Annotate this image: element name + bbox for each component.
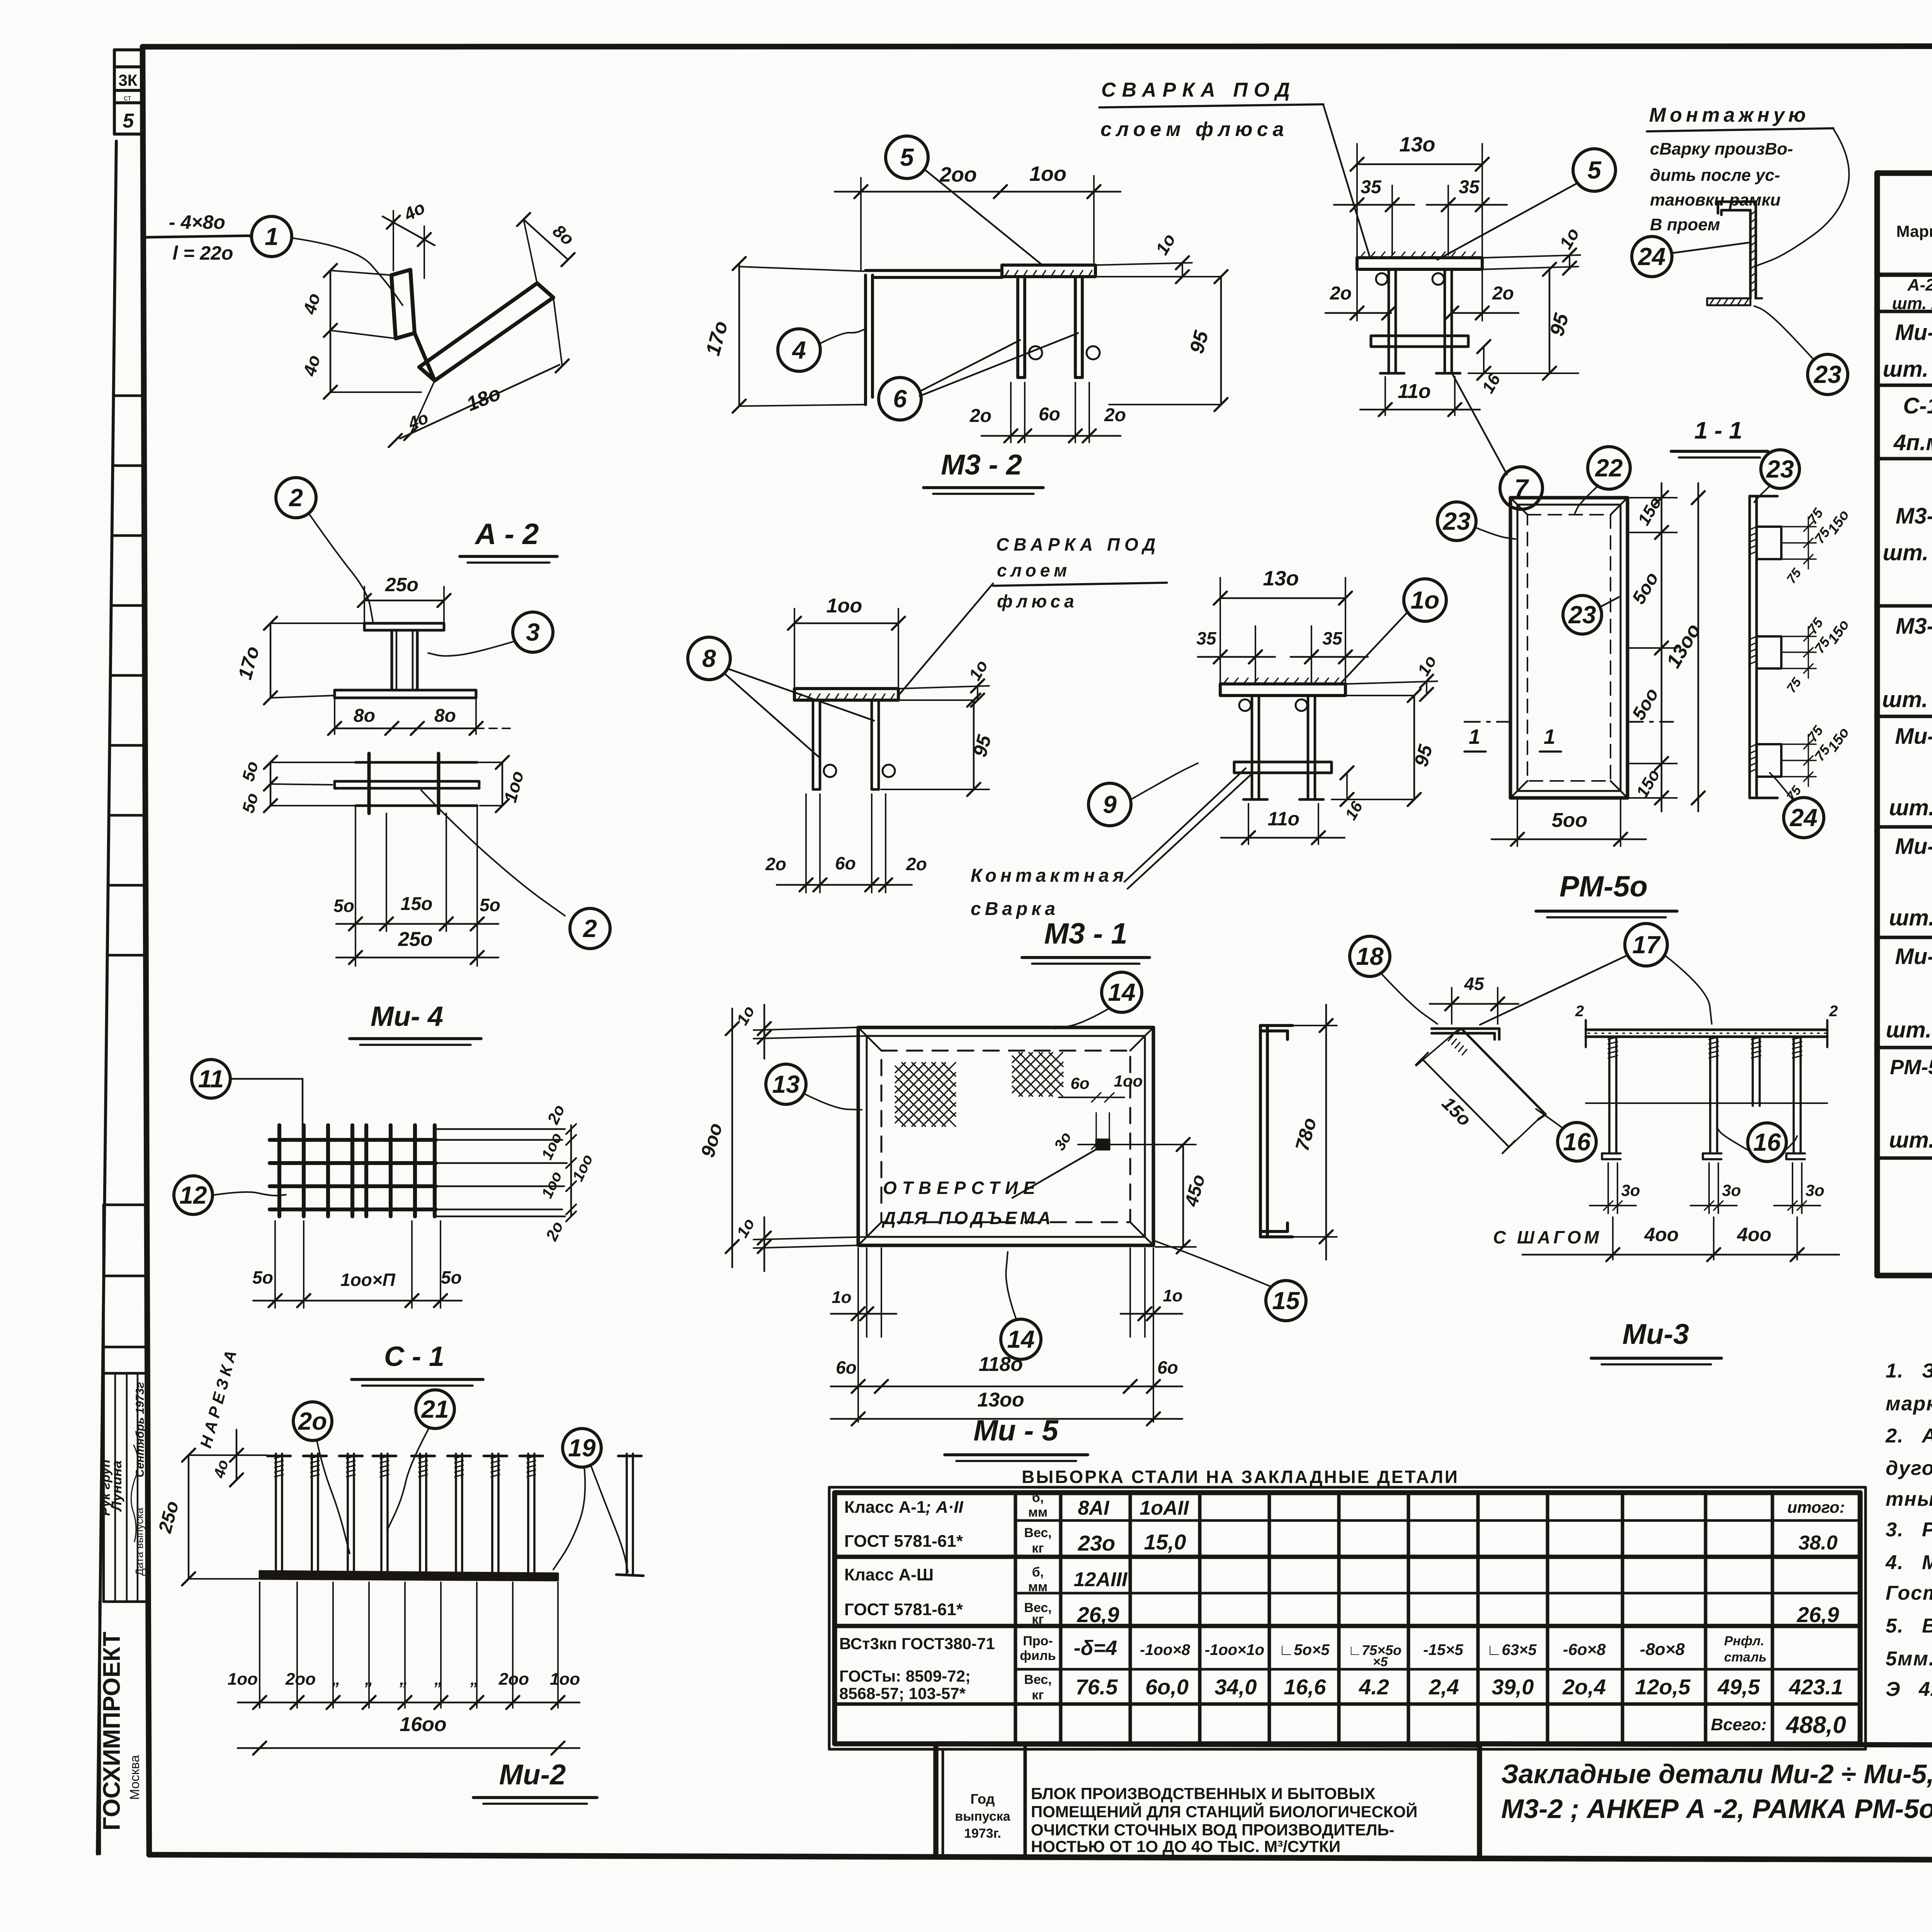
- svg-text:1оо: 1оо: [1029, 162, 1066, 185]
- svg-text:23: 23: [1442, 507, 1470, 535]
- svg-text:35: 35: [1196, 628, 1217, 648]
- mesh S-1: [270, 1125, 567, 1216]
- svg-text:кг: кг: [1032, 1688, 1044, 1702]
- Mi-3 corner angle piece: [1432, 1029, 1546, 1119]
- title block: sheet name: [1501, 1759, 1932, 1824]
- svg-text:1о: 1о: [1414, 652, 1440, 679]
- callout 24 (section bottom): [1784, 798, 1824, 838]
- svg-text:мм: мм: [1028, 1580, 1048, 1594]
- svg-text:1о: 1о: [1151, 230, 1179, 258]
- callout 23 (frame inner): [1563, 595, 1602, 634]
- note otverstie dlya podyoma: [881, 1148, 1099, 1228]
- svg-text:75: 75: [1804, 615, 1826, 637]
- callout 15: [1266, 1281, 1306, 1321]
- dim 80 (plate width): [517, 213, 578, 283]
- svg-text:Ми-2: Ми-2: [499, 1759, 566, 1791]
- mesh bottom dims 50/100xP/50: [252, 1221, 462, 1308]
- Mi-3 dim 150 diagonal: [1416, 1033, 1538, 1153]
- title M3-2: [923, 449, 1043, 494]
- svg-text:М3-1: М3-1: [1896, 614, 1932, 639]
- M3-2 section dims 20/20: [1325, 269, 1519, 321]
- svg-text:Москва: Москва: [128, 1755, 142, 1800]
- svg-text:1оо: 1оо: [500, 769, 527, 804]
- svg-text:1оо: 1оо: [827, 595, 862, 617]
- svg-text:б,: б,: [1032, 1565, 1044, 1580]
- svg-text:дить после ус-: дить после ус-: [1650, 166, 1780, 185]
- Mi-3 dims 30: [1590, 1163, 1825, 1213]
- svg-text:1: 1: [1469, 725, 1480, 748]
- svg-text:75: 75: [1804, 505, 1826, 527]
- svg-text:тным способом на аВтома: тным способом на аВтоматах или полуаВтом…: [1886, 1488, 1932, 1510]
- svg-text:3К: 3К: [119, 71, 138, 89]
- svg-text:РМ-5о: РМ-5о: [1890, 1056, 1932, 1079]
- svg-text:∟5о×5: ∟5о×5: [1279, 1641, 1330, 1658]
- svg-text:8568-57; 103-57*: 8568-57; 103-57*: [839, 1684, 966, 1702]
- plan dims 50/50/100: [239, 756, 528, 815]
- svg-text:8о: 8о: [549, 221, 578, 249]
- svg-text:Лунина: Лунина: [109, 1461, 124, 1512]
- svg-text:×5: ×5: [1373, 1655, 1388, 1669]
- M3-2 dim 95: [1097, 270, 1228, 411]
- Mi-2 studs: [267, 1454, 543, 1572]
- Mi-5 dim 450: [1110, 1138, 1209, 1253]
- callout 6: [879, 378, 921, 420]
- M3-2 section dims 35/35: [1334, 177, 1507, 255]
- svg-text:6: 6: [893, 385, 907, 413]
- svg-text:26,9: 26,9: [1077, 1602, 1119, 1627]
- svg-text:-6о×8: -6о×8: [1563, 1640, 1606, 1658]
- svg-text:„: „: [332, 1670, 340, 1689]
- svg-text:итого:: итого:: [1787, 1498, 1845, 1516]
- callout 4: [778, 329, 820, 371]
- svg-text:сВарка: сВарка: [971, 899, 1059, 919]
- svg-text:шт. 1: шт. 1: [1889, 905, 1932, 930]
- svg-text:шт. 2о: шт. 2о: [1882, 687, 1932, 712]
- svg-text:45: 45: [1464, 974, 1485, 994]
- svg-text:15о: 15о: [1633, 766, 1663, 801]
- spec table header text: [1896, 189, 1932, 269]
- callout 3: [513, 612, 553, 652]
- callout 2 (lower): [570, 908, 610, 949]
- svg-text:13: 13: [772, 1070, 799, 1098]
- svg-text:дугоВой сВаркой под сл: дугоВой сВаркой под слоем флюса или конт…: [1886, 1457, 1932, 1480]
- svg-text:1оо: 1оо: [538, 1169, 565, 1201]
- M3-1 section dims 95/10/16/110: [1221, 652, 1440, 844]
- note svarka pod sloem flyusa (M3-1): [898, 534, 1167, 696]
- svg-text:2,4: 2,4: [1429, 1675, 1459, 1699]
- Mi-5 plate plan: [858, 1027, 1153, 1245]
- steel summary table grid: [829, 1487, 1866, 1749]
- Mi-5 bottom dims: [831, 1248, 1183, 1425]
- RM-50 frame plan: [1510, 498, 1628, 798]
- svg-text:Вес,: Вес,: [1024, 1672, 1051, 1687]
- svg-text:16,6: 16,6: [1284, 1675, 1327, 1699]
- svg-text:34,0: 34,0: [1215, 1675, 1257, 1699]
- RM-50 bottom dim 500: [1492, 800, 1646, 846]
- svg-text:2оо: 2оо: [498, 1670, 529, 1689]
- svg-text:5о: 5о: [441, 1267, 462, 1287]
- spec table mark column entries: [1882, 276, 1932, 1153]
- steel summary table text: [839, 1490, 1846, 1738]
- svg-text:М3-2: М3-2: [1896, 503, 1932, 529]
- svg-text:75: 75: [1784, 675, 1804, 696]
- svg-text:14: 14: [1007, 1325, 1034, 1353]
- svg-text:Год: Год: [971, 1791, 995, 1807]
- svg-text:1оо: 1оо: [1114, 1072, 1143, 1090]
- Mi-3 dim 45: [1430, 974, 1519, 1024]
- svg-text:45о: 45о: [1181, 1172, 1209, 1209]
- svg-text:3: 3: [526, 618, 540, 646]
- Mi-4 T-section: [335, 623, 476, 698]
- svg-text:24: 24: [1638, 243, 1665, 270]
- svg-text:шт.15: шт.15: [1886, 1017, 1932, 1043]
- spec table grid: [1877, 173, 1932, 1276]
- M3-2 section dim 95: [1468, 263, 1578, 380]
- svg-text:2о: 2о: [765, 854, 786, 874]
- svg-text:423.1: 423.1: [1789, 1675, 1843, 1699]
- title block: object description: [1031, 1784, 1417, 1855]
- svg-text:l = 22о: l = 22о: [172, 242, 233, 264]
- svg-text:М3 - 2: М3 - 2: [941, 449, 1022, 481]
- svg-text:НАРЕЗКА: НАРЕЗКА: [196, 1345, 241, 1450]
- svg-text:шт. 1: шт. 1: [1889, 1128, 1932, 1153]
- svg-text:1оо×П: 1оо×П: [340, 1270, 396, 1290]
- callout 19: [563, 1429, 601, 1467]
- svg-text:Класс А-Ш: Класс А-Ш: [844, 1565, 934, 1584]
- svg-text:Дата выпуска: Дата выпуска: [133, 1508, 145, 1576]
- svg-text:4: 4: [791, 336, 806, 364]
- svg-text:Контактная: Контактная: [971, 866, 1128, 886]
- svg-text:4о: 4о: [400, 197, 429, 225]
- svg-text:; А·II: ; А·II: [925, 1498, 964, 1517]
- svg-text:шт. 27: шт. 27: [1892, 294, 1932, 313]
- svg-text:марки АР и КЖ.: марки АР и КЖ.: [1886, 1393, 1932, 1415]
- svg-text:17о: 17о: [702, 319, 732, 358]
- svg-text:2о: 2о: [969, 406, 992, 426]
- svg-text:1: 1: [1544, 725, 1555, 748]
- Mi-5 lifting hole: [1051, 1072, 1143, 1153]
- svg-text:2. Анкеры приВариВаются: 2. Анкеры приВариВаются к пластинам В та…: [1885, 1425, 1932, 1447]
- section label 1-1: [1671, 417, 1768, 457]
- svg-text:3о: 3о: [1722, 1181, 1741, 1199]
- svg-text:49,5: 49,5: [1718, 1675, 1760, 1699]
- svg-text:2: 2: [1829, 1003, 1838, 1020]
- svg-text:шт. 1: шт. 1: [1889, 795, 1932, 820]
- Mi-4 plan view: [335, 753, 479, 813]
- svg-text:14: 14: [1108, 978, 1135, 1006]
- svg-text:1973г.: 1973г.: [964, 1826, 1001, 1841]
- svg-text:сталь: сталь: [1724, 1650, 1767, 1665]
- svg-text:23: 23: [1813, 361, 1841, 388]
- stray stud (pos 19): [616, 1454, 643, 1576]
- callout 23 (piece): [1808, 354, 1848, 395]
- svg-text:ГОСТы: 8509-72;: ГОСТы: 8509-72;: [839, 1667, 971, 1685]
- svg-text:5о: 5о: [333, 896, 354, 916]
- svg-text:26,9: 26,9: [1797, 1602, 1839, 1627]
- svg-text:38.0: 38.0: [1798, 1532, 1837, 1554]
- M3-1 section plate (130): [1220, 678, 1345, 799]
- svg-text:ОЧИСТКИ СТОЧНЫХ ВОД ПРОИЗВО: ОЧИСТКИ СТОЧНЫХ ВОД ПРОИЗВОДИТЕЛЬ-: [1031, 1821, 1395, 1839]
- svg-text:2о: 2о: [1330, 283, 1352, 304]
- callout 1: [252, 216, 292, 257]
- svg-text:2о: 2о: [1104, 405, 1126, 425]
- svg-text:1о: 1о: [1411, 586, 1440, 614]
- svg-text:3. Расход металла учтен: 3. Расход металла учтен на листе КЖ-1: [1886, 1519, 1932, 1541]
- svg-text:шт. 38: шт. 38: [1883, 357, 1932, 382]
- svg-text:118о: 118о: [979, 1353, 1023, 1376]
- svg-text:12АIII: 12АIII: [1074, 1568, 1128, 1591]
- title Mi-2: [473, 1759, 597, 1804]
- svg-text:35: 35: [1361, 177, 1382, 197]
- callout 12: [174, 1176, 213, 1214]
- svg-text:б,: б,: [1032, 1490, 1044, 1505]
- M3-2 section plate: [1357, 252, 1482, 373]
- svg-text:2оо: 2оо: [939, 163, 977, 186]
- svg-text:23: 23: [1568, 601, 1596, 629]
- svg-text:ВСт3кп ГОСТ380-71: ВСт3кп ГОСТ380-71: [839, 1634, 995, 1653]
- svg-text:„: „: [364, 1670, 373, 1689]
- svg-text:8: 8: [702, 645, 716, 672]
- svg-text:ГОСТ 5781-61*: ГОСТ 5781-61*: [844, 1600, 963, 1619]
- svg-text:6о: 6о: [1157, 1357, 1178, 1378]
- svg-text:1оАII: 1оАII: [1139, 1497, 1189, 1519]
- svg-text:5. ВСЕ сВарные шВы В: 5. ВСЕ сВарные шВы Выполнять Высотой: [1886, 1615, 1932, 1637]
- svg-text:22: 22: [1595, 454, 1622, 482]
- svg-text:5о: 5о: [480, 895, 500, 915]
- svg-text:15,0: 15,0: [1144, 1530, 1186, 1554]
- svg-text:М3 - 1: М3 - 1: [1044, 917, 1127, 950]
- svg-text:шт. 14: шт. 14: [1883, 540, 1932, 565]
- svg-text:ст: ст: [124, 94, 131, 102]
- svg-text:2оо: 2оо: [285, 1670, 316, 1689]
- svg-text:2о: 2о: [298, 1407, 327, 1435]
- M3-1 dim 10: [900, 657, 992, 707]
- svg-text:1о: 1о: [832, 1288, 851, 1307]
- svg-text:13о: 13о: [1263, 567, 1299, 590]
- svg-text:3о: 3о: [1051, 1129, 1075, 1153]
- svg-text:8АI: 8АI: [1078, 1497, 1110, 1519]
- note montage welding: [1647, 104, 1849, 267]
- callout 11: [192, 1060, 230, 1098]
- svg-text:-1оо×1о: -1оо×1о: [1205, 1641, 1264, 1658]
- svg-text:„: „: [470, 1670, 479, 1689]
- section marks 1 1: [1464, 722, 1673, 752]
- callout 5 (M3-2): [886, 136, 928, 179]
- mesh right dims 20/100/100/100/20: [538, 1102, 596, 1244]
- callout 23 (frame tl): [1437, 502, 1476, 541]
- note kontaktnaya svarka: [971, 768, 1250, 919]
- title Mi-3: [1591, 1318, 1721, 1364]
- Mi-3 rail assembly: [1575, 1003, 1838, 1159]
- svg-text:2о: 2о: [906, 854, 927, 874]
- svg-text:4о: 4о: [299, 291, 324, 316]
- callout 18: [1350, 936, 1390, 976]
- svg-text:39,0: 39,0: [1492, 1675, 1534, 1699]
- svg-text:С-1: С-1: [1903, 393, 1932, 418]
- svg-text:выпуска: выпуска: [955, 1809, 1010, 1824]
- svg-text:1о: 1о: [1163, 1286, 1182, 1305]
- callout 20: [293, 1402, 332, 1440]
- svg-text:-δ=4: -δ=4: [1074, 1636, 1117, 1660]
- svg-text:1о: 1о: [733, 1215, 758, 1241]
- svg-text:5оо: 5оо: [1628, 685, 1663, 723]
- svg-text:18о: 18о: [463, 382, 504, 416]
- svg-text:Ми-3: Ми-3: [1622, 1318, 1689, 1350]
- svg-text:2: 2: [289, 484, 303, 512]
- title A-2: [460, 518, 557, 563]
- Mi-2 dims 250/40 narezka: [155, 1345, 267, 1585]
- svg-text:5о: 5о: [252, 1267, 273, 1287]
- dim 250 (T top): [358, 574, 451, 623]
- svg-text:1: 1: [265, 223, 279, 250]
- svg-text:75: 75: [1804, 723, 1826, 745]
- svg-text:3о: 3о: [1805, 1181, 1824, 1199]
- svg-text:5: 5: [123, 110, 134, 132]
- svg-text:Ми- 4: Ми- 4: [371, 1001, 443, 1032]
- channel piece pos 24: [1707, 202, 1762, 305]
- svg-text:флюса: флюса: [997, 591, 1078, 611]
- svg-text:РМ-5о: РМ-5о: [1560, 870, 1648, 903]
- plan dims 50/150/50 + 250: [333, 806, 500, 966]
- callout 24 (piece): [1632, 236, 1672, 277]
- svg-text:15о: 15о: [401, 894, 433, 914]
- callout 17: [1625, 923, 1667, 966]
- svg-text:4о: 4о: [405, 408, 431, 433]
- svg-text:Ми-2: Ми-2: [1895, 944, 1932, 969]
- Mi-5 dims left 10/900/10: [697, 1003, 867, 1271]
- callout 16 (angle): [1558, 1122, 1596, 1161]
- channel section 780: [1260, 1026, 1293, 1237]
- svg-text:БЛОК ПРОИЗВОДСТВЕННЫХ И БЫТ: БЛОК ПРОИЗВОДСТВЕННЫХ И БЫТОВЫХ: [1031, 1784, 1375, 1803]
- svg-text:1о: 1о: [965, 657, 992, 684]
- title RM-50: [1536, 870, 1677, 917]
- svg-text:16оо: 16оо: [400, 1713, 446, 1736]
- svg-text:Вес,: Вес,: [1024, 1526, 1051, 1540]
- left stamp sub-block: [98, 1205, 147, 1602]
- svg-text:С - 1: С - 1: [384, 1341, 444, 1372]
- svg-text:Ми-3: Ми-3: [1895, 834, 1932, 859]
- svg-text:Про-: Про-: [1023, 1634, 1053, 1648]
- callout 22: [1588, 447, 1630, 489]
- svg-text:488,0: 488,0: [1785, 1712, 1846, 1738]
- svg-text:Рнфл.: Рнфл.: [1724, 1634, 1764, 1648]
- svg-text:5оо: 5оо: [1628, 569, 1663, 607]
- svg-text:2: 2: [1575, 1003, 1584, 1020]
- leader flag -4x80 l=220: [146, 211, 403, 305]
- callout 8: [688, 637, 730, 680]
- callout 9: [1088, 783, 1131, 826]
- svg-text:4. Материал пластин -: 4. Материал пластин - сталь ВСт3КП2по: [1885, 1551, 1932, 1574]
- channel dim 780: [1291, 1005, 1337, 1260]
- svg-text:2: 2: [583, 915, 597, 942]
- svg-text:М3-2 ; АНКЕР А -2, РАМКА: М3-2 ; АНКЕР А -2, РАМКА РМ-5о: [1501, 1794, 1932, 1824]
- svg-text:5мм. СВарку произВодить: 5мм. СВарку произВодить электродами типа: [1886, 1648, 1932, 1670]
- svg-text:1 - 1: 1 - 1: [1694, 417, 1742, 444]
- svg-text:16: 16: [1563, 1128, 1591, 1156]
- svg-text:19: 19: [568, 1434, 596, 1462]
- svg-text:1оо: 1оо: [538, 1130, 565, 1162]
- svg-text:∟63×5: ∟63×5: [1486, 1641, 1537, 1658]
- svg-text:15о: 15о: [1438, 1093, 1475, 1130]
- svg-text:слоем флюса: слоем флюса: [1100, 118, 1289, 141]
- svg-text:Монтажную: Монтажную: [1649, 104, 1810, 126]
- title S-1: [352, 1341, 483, 1386]
- M3-1 section dim 130: [1214, 567, 1352, 683]
- svg-text:„: „: [434, 1670, 443, 1689]
- M3-1 section dims 35/35: [1196, 626, 1368, 682]
- dims 40/180 bottom: [389, 298, 569, 447]
- svg-text:Марка: Марка: [1896, 222, 1932, 240]
- title block: year cell: [955, 1791, 1010, 1841]
- title block: [936, 1744, 1932, 1858]
- svg-text:кг: кг: [1032, 1612, 1044, 1627]
- RM-50 section 1-1 plate: [1750, 496, 1781, 798]
- svg-text:2о: 2о: [1492, 283, 1514, 304]
- svg-text:11о: 11о: [1398, 380, 1431, 403]
- svg-text:2о,4: 2о,4: [1562, 1675, 1606, 1699]
- left margin stamp column: [97, 141, 147, 1854]
- notes text: [1885, 1360, 1932, 1701]
- svg-text:ДЛЯ ПОДЪЕМА: ДЛЯ ПОДЪЕМА: [881, 1208, 1054, 1228]
- svg-text:СВАРКА ПОД: СВАРКА ПОД: [996, 534, 1160, 554]
- svg-text:Класс А-1: Класс А-1: [844, 1498, 926, 1517]
- callout 10: [1404, 579, 1446, 621]
- svg-text:25о: 25о: [155, 1499, 183, 1536]
- svg-text:„: „: [399, 1670, 408, 1689]
- M3-2 section dim 110: [1360, 377, 1480, 416]
- M3-2 section dim 16: [1477, 340, 1504, 396]
- M3-1 dims 20/60/20: [765, 794, 927, 893]
- callout 14 (lower): [1001, 1319, 1041, 1359]
- svg-text:25о: 25о: [398, 928, 433, 951]
- svg-text:12: 12: [179, 1181, 207, 1209]
- callout 16 (rail): [1748, 1123, 1786, 1162]
- svg-text:75: 75: [1784, 783, 1804, 804]
- svg-text:-15×5: -15×5: [1423, 1641, 1463, 1658]
- svg-text:13оо: 13оо: [977, 1389, 1024, 1411]
- svg-text:8о: 8о: [354, 706, 375, 726]
- svg-text:6о: 6о: [835, 853, 856, 873]
- callout 7: [1500, 467, 1543, 509]
- svg-text:ВЫБОРКА СТАЛИ НА ЗАКЛАДНЫЕ ДЕТ: ВЫБОРКА СТАЛИ НА ЗАКЛАДНЫЕ ДЕТАЛИ: [1022, 1467, 1459, 1487]
- svg-text:76.5: 76.5: [1076, 1675, 1118, 1699]
- svg-text:2о: 2о: [542, 1219, 567, 1244]
- note svarka pod sloem flyusa (M3-2): [1099, 79, 1370, 257]
- svg-text:3о: 3о: [1621, 1181, 1640, 1199]
- svg-text:4о: 4о: [211, 1458, 232, 1480]
- top-left registry boxes: [114, 50, 142, 134]
- svg-text:СВАРКА ПОД: СВАРКА ПОД: [1101, 79, 1296, 101]
- dim 40 (tab top): [383, 197, 435, 278]
- detail A-2 isometric plate: [391, 270, 553, 381]
- Mi-3 dims s shagom 400/400: [1493, 1217, 1839, 1261]
- svg-text:ГОСТ 5781-61*: ГОСТ 5781-61*: [844, 1532, 963, 1551]
- M3-1 plate + anchors: [794, 689, 898, 789]
- svg-text:5: 5: [1587, 156, 1602, 184]
- svg-text:11о: 11о: [1268, 808, 1299, 830]
- svg-text:Ми-5: Ми-5: [1895, 724, 1932, 749]
- svg-text:17: 17: [1632, 931, 1661, 959]
- svg-text:17о: 17о: [234, 644, 263, 682]
- svg-text:сВарку произВо-: сВарку произВо-: [1650, 139, 1793, 158]
- svg-text:-8о×8: -8о×8: [1640, 1640, 1685, 1659]
- svg-text:1оо: 1оо: [569, 1152, 596, 1184]
- svg-text:1оо: 1оо: [228, 1670, 258, 1689]
- title M3-1: [1022, 917, 1150, 964]
- svg-text:78о: 78о: [1291, 1116, 1320, 1153]
- callout 23 (section top): [1761, 450, 1799, 488]
- svg-text:21: 21: [421, 1395, 449, 1423]
